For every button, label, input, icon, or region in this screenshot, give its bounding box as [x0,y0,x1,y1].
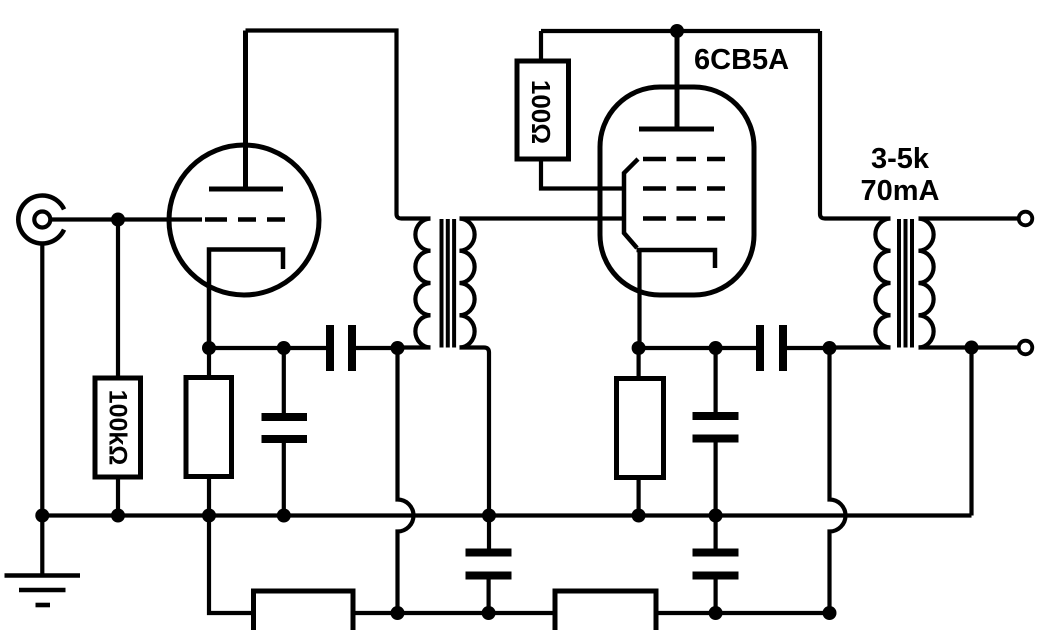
output terminal bottom [1019,341,1033,355]
output terminal top [1019,212,1033,226]
svg-text:100Ω: 100Ω [526,80,556,144]
transformer T2 secondary winding [919,219,934,348]
node T1 secondary/rail junction [482,509,496,523]
resistor R2 (V1 cathode) [186,378,232,477]
wire C2 to transformer bottom node [356,346,398,350]
resistor R6 (V2 cathode) [617,379,664,478]
svg-text:70mA: 70mA [861,175,940,207]
ground rail wire [42,513,971,517]
tube V2 envelope [600,87,754,295]
node 100k/rail junction [111,509,125,523]
node R6/rail junction [632,509,646,523]
node R2/rail junction [202,509,216,523]
wire C3 bottom lead [487,580,491,614]
transformer T1 primary winding [415,219,430,348]
wire T2 bottom node down with crossover hop to bottom bus [830,348,846,613]
wire C6 bottom lead [713,580,717,614]
wire T1 secondary bottom down to rail [460,348,490,516]
node secondary bottom / rail junction [965,341,979,355]
wire C3 top lead [487,516,491,549]
input jack J1 [18,196,64,244]
node hop wire 2 / bottom bus junction [823,606,837,620]
node input junction [111,213,125,227]
tube V2 beam plate rod to cathode [624,159,638,248]
ground [5,576,81,606]
tube V2 screen grid (dashed row 2) [643,186,725,191]
wire 100k top lead [116,220,120,379]
node C1/rail junction [277,509,291,523]
svg-text:100kΩ: 100kΩ [104,390,132,466]
wire bottom bus right segment [656,611,830,615]
node shield/rail junction [35,509,49,523]
capacitor C5 (V2 cathode bypass) [693,416,739,439]
wire T1 primary bottom to node [398,345,431,349]
tube V2 plate [639,31,714,129]
wire C4 to T2 primary bottom node [787,346,830,350]
tube V2 control grid (dashed row 3) [643,216,725,221]
node C5/rail junction [709,509,723,523]
wire R2 leads [207,348,211,378]
capacitor C3 (filter, stage 1) [466,553,512,576]
node C3/bottom bus junction [482,606,496,620]
svg-text:3-5k: 3-5k [871,143,930,175]
wire rail right end up to secondary bottom [969,348,973,516]
transformer T2 core [899,219,912,348]
wire rail to bottom bus (left corner) [209,516,254,614]
wire B+ top bus stage 2 [541,29,820,33]
wire jack shield to ground rail [40,244,44,576]
wire cathode junction to coupling cap [209,346,327,350]
capacitor C2 (feedback coupling, stage 1) [330,325,352,371]
wire V2 cathode lead [637,250,641,348]
wire 100k bottom lead [116,477,120,516]
wire R6 leads [636,348,640,379]
wire T1 bottom node down with crossover hop to bottom bus [398,348,414,612]
tube V2 cathode [637,250,716,268]
node T1 primary bottom junction [391,341,405,355]
wire C1 leads [282,348,286,413]
tube V2 beam plates (dashed row 1) [643,157,725,162]
wire 100Ω top lead [539,31,543,61]
resistor R5 100Ω (screen) [517,61,569,159]
resistor R1 100kΩ [95,378,141,477]
tube V1 plate [209,31,283,190]
capacitor C1 (V1 cathode bypass) [262,417,308,439]
wire T2 primary bottom lead [830,345,891,349]
node V2 cathode junction [632,341,646,355]
tube V1 grid (dashed) [205,217,285,222]
wire C5 leads [713,348,717,412]
node T2 primary bottom junction [823,341,837,355]
wire 100Ω bottom lead to V2 screen grid [541,159,625,189]
wire C6 top lead [713,516,717,549]
node C6/bottom bus junction [709,606,723,620]
svg-text:6CB5A: 6CB5A [694,44,789,76]
node bypass cap C5 top [709,341,723,355]
wire T2 secondary bottom to output terminal [919,345,1019,349]
tube V1 cathode [209,250,283,349]
wire cathode junction to coupling cap C4 [639,346,756,350]
resistor R4 (bottom B+ dropper 2) [555,591,656,630]
node hop wire / bottom bus junction [391,606,405,620]
capacitor C6 (filter, stage 2) [693,553,739,576]
resistor R3 (bottom B+ dropper 1) [254,591,354,630]
capacitor C4 (feedback coupling, stage 2) [760,325,783,371]
wire T2 secondary top to output terminal [919,216,1019,220]
transformer T1 core [442,219,455,348]
wire T1 secondary top to V2 grid [460,216,626,220]
node V2 plate/B+ junction [670,24,684,38]
transformer T1 secondary winding [460,219,475,348]
node V1 cathode junction [202,341,216,355]
wire bottom bus middle segment [353,611,555,615]
transformer T2 primary winding [875,219,890,348]
node bypass cap C1 top [277,341,291,355]
wire input center to grid of V1 [52,217,202,221]
wire B+ down to output transformer T2 primary [820,31,891,219]
wire V1 plate B+ loop to transformer T1 primary [246,31,431,219]
tube V1 envelope [169,145,319,295]
